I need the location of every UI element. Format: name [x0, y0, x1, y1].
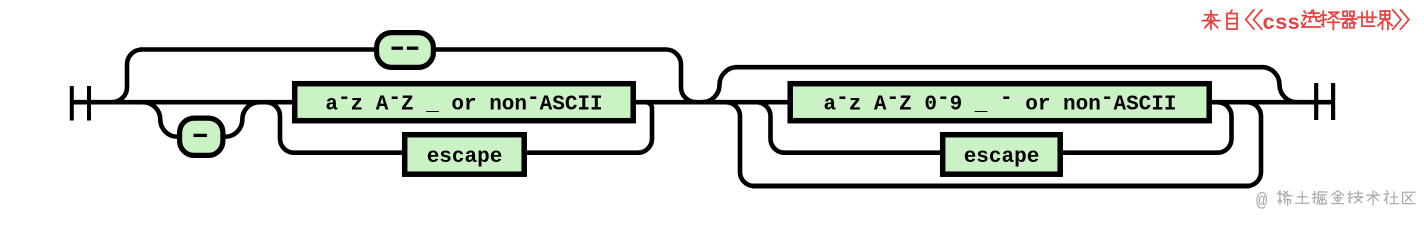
wire: escape2 line right segment [1060, 150, 1219, 155]
svg-text:escape: escape [964, 146, 1040, 169]
end symbol [1314, 83, 1318, 120]
wire: group1 skip top line right segment [434, 47, 666, 52]
wire: group2 skip top line [735, 65, 1264, 70]
wire: group2 loop right rise to main line [1247, 102, 1261, 186]
wire: escape1 branch down from main line [266, 102, 294, 153]
wire: escape1 line right segment [524, 150, 640, 155]
terminal node "-" [180, 118, 223, 155]
wire: "-" branch up-right S-curve [225, 102, 260, 137]
wire: escape1 branch up to main line [638, 102, 652, 153]
wire: escape2 line left segment [782, 150, 943, 155]
wire: group2 skip rise from main line [702, 67, 737, 102]
label "-" [194, 134, 208, 137]
wire: group2 skip descent to main line [1262, 67, 1297, 102]
wire: "-" branch down-left S-curve [143, 102, 178, 137]
wire: group1 skip branch left (up from main line) [112, 50, 142, 103]
start symbol [70, 86, 74, 121]
wire: main horizontal line [70, 100, 1335, 105]
non-terminal box "a-z A-Z _ or non-ASCII" [295, 84, 634, 121]
wire: group2 loop left descent [726, 102, 754, 186]
wire: escape2 branch up to main line [1218, 102, 1232, 153]
terminal node "--" [377, 33, 434, 68]
non-terminal box "escape" (group1) [405, 135, 525, 175]
wire: escape1 line left segment [292, 150, 405, 155]
non-terminal box "a-z A-Z 0-9 _ - or non-ASCII" [790, 84, 1209, 121]
non-terminal box "escape" (group2) [943, 135, 1060, 175]
wire: group2 loop bottom line [752, 184, 1249, 189]
wire: group1 skip branch right (down to main line) [666, 50, 696, 103]
caption red text 来自《css选择器世界》 top-right [1202, 11, 1220, 30]
label "--" [392, 47, 404, 50]
svg-text:css: css [1262, 12, 1299, 36]
wire: escape2 branch down from main line [757, 102, 785, 153]
svg-text:escape: escape [427, 146, 503, 169]
wire: group1 skip top line left segment [140, 47, 376, 52]
svg-text:@: @ [1256, 190, 1268, 212]
